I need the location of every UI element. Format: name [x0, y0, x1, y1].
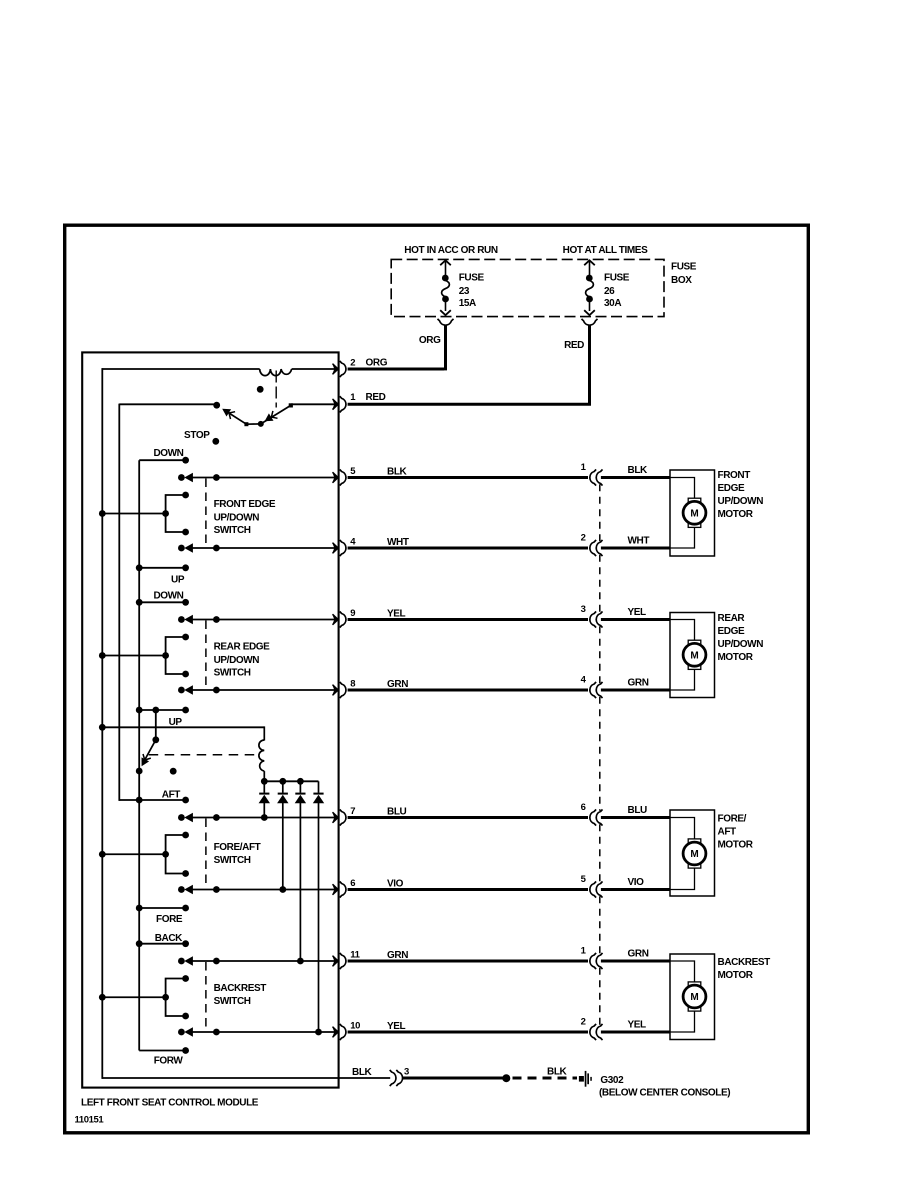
svg-text:FORE/AFT: FORE/AFT — [214, 842, 261, 853]
svg-text:BLK: BLK — [628, 465, 649, 476]
svg-text:FRONT: FRONT — [718, 470, 751, 481]
svg-text:UP/DOWN: UP/DOWN — [214, 512, 260, 523]
svg-text:WHT: WHT — [628, 536, 650, 547]
svg-text:MOTOR: MOTOR — [718, 970, 754, 981]
svg-text:15A: 15A — [459, 298, 476, 309]
svg-text:LEFT FRONT SEAT CONTROL MODULE: LEFT FRONT SEAT CONTROL MODULE — [81, 1097, 259, 1108]
svg-text:30A: 30A — [604, 298, 621, 309]
svg-text:FUSE: FUSE — [671, 262, 697, 273]
svg-text:11: 11 — [350, 949, 360, 960]
svg-text:G302: G302 — [600, 1075, 624, 1086]
svg-text:UP/DOWN: UP/DOWN — [718, 496, 764, 507]
svg-text:DOWN: DOWN — [153, 448, 183, 459]
svg-text:GRN: GRN — [628, 949, 649, 960]
svg-text:REAR EDGE: REAR EDGE — [214, 642, 271, 653]
svg-text:9: 9 — [350, 608, 355, 619]
svg-text:UP/DOWN: UP/DOWN — [214, 655, 260, 666]
svg-text:FUSE: FUSE — [604, 272, 630, 283]
svg-text:FRONT EDGE: FRONT EDGE — [214, 499, 276, 510]
svg-text:3: 3 — [404, 1067, 409, 1078]
svg-text:26: 26 — [604, 286, 615, 297]
svg-text:M: M — [690, 651, 698, 662]
svg-text:MOTOR: MOTOR — [718, 840, 754, 851]
svg-text:(BELOW CENTER CONSOLE): (BELOW CENTER CONSOLE) — [599, 1088, 730, 1099]
svg-text:M: M — [690, 992, 698, 1003]
svg-text:RED: RED — [564, 340, 584, 351]
svg-text:AFT: AFT — [718, 827, 737, 838]
svg-text:GRN: GRN — [387, 950, 408, 961]
svg-text:3: 3 — [581, 604, 586, 615]
svg-text:2: 2 — [581, 1017, 586, 1028]
svg-text:2: 2 — [350, 357, 355, 368]
svg-text:6: 6 — [581, 802, 586, 813]
svg-text:SWITCH: SWITCH — [214, 668, 251, 679]
svg-text:FORE: FORE — [156, 914, 183, 925]
svg-text:YEL: YEL — [628, 1020, 647, 1031]
svg-text:BACK: BACK — [155, 933, 183, 944]
svg-text:BACKREST: BACKREST — [718, 957, 771, 968]
svg-text:HOT IN ACC OR RUN: HOT IN ACC OR RUN — [404, 245, 498, 256]
svg-text:6: 6 — [350, 878, 355, 889]
svg-text:FUSE: FUSE — [459, 272, 485, 283]
svg-text:YEL: YEL — [628, 607, 647, 618]
svg-text:UP/DOWN: UP/DOWN — [718, 639, 764, 650]
svg-text:M: M — [690, 509, 698, 520]
svg-text:EDGE: EDGE — [718, 483, 745, 494]
svg-text:MOTOR: MOTOR — [718, 652, 754, 663]
svg-text:DOWN: DOWN — [153, 591, 183, 602]
svg-text:GRN: GRN — [628, 678, 649, 689]
svg-text:BLK: BLK — [352, 1067, 373, 1078]
svg-text:UP: UP — [169, 717, 183, 728]
svg-text:SWITCH: SWITCH — [214, 855, 251, 866]
svg-text:M: M — [690, 849, 698, 860]
svg-text:VIO: VIO — [387, 879, 404, 890]
svg-text:AFT: AFT — [162, 789, 181, 800]
svg-text:BLU: BLU — [387, 807, 407, 818]
svg-text:YEL: YEL — [387, 1021, 406, 1032]
svg-text:110151: 110151 — [75, 1115, 105, 1126]
svg-text:23: 23 — [459, 286, 470, 297]
svg-text:8: 8 — [350, 678, 355, 689]
svg-text:BACKREST: BACKREST — [214, 983, 267, 994]
svg-text:FORW: FORW — [154, 1055, 184, 1066]
svg-text:RED: RED — [366, 392, 386, 403]
svg-text:MOTOR: MOTOR — [718, 509, 754, 520]
svg-text:SWITCH: SWITCH — [214, 525, 251, 536]
svg-text:ORG: ORG — [419, 335, 441, 346]
svg-text:GRN: GRN — [387, 679, 408, 690]
svg-text:STOP: STOP — [184, 430, 210, 441]
svg-text:ORG: ORG — [366, 357, 388, 368]
svg-text:EDGE: EDGE — [718, 626, 745, 637]
svg-text:WHT: WHT — [387, 537, 409, 548]
svg-text:UP: UP — [171, 574, 185, 585]
svg-text:HOT AT ALL TIMES: HOT AT ALL TIMES — [563, 245, 648, 256]
svg-text:REAR: REAR — [718, 613, 746, 624]
svg-text:SWITCH: SWITCH — [214, 996, 251, 1007]
svg-text:VIO: VIO — [628, 877, 645, 888]
svg-text:BOX: BOX — [671, 275, 692, 286]
svg-text:FORE/: FORE/ — [718, 814, 747, 825]
svg-text:BLK: BLK — [547, 1067, 568, 1078]
svg-text:BLU: BLU — [628, 805, 648, 816]
svg-text:BLK: BLK — [387, 467, 408, 478]
svg-text:2: 2 — [581, 533, 586, 544]
svg-text:10: 10 — [350, 1020, 360, 1031]
svg-text:7: 7 — [350, 806, 355, 817]
svg-text:YEL: YEL — [387, 609, 406, 620]
